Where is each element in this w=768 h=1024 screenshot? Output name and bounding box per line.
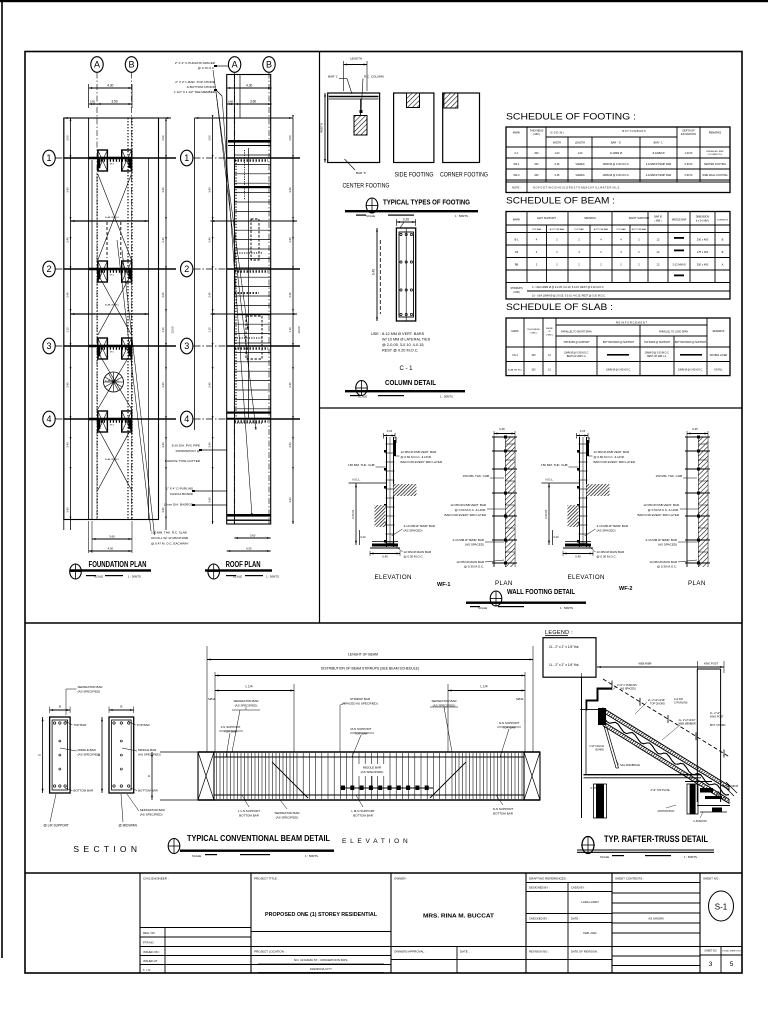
svg-text:3.60: 3.60 xyxy=(109,535,115,539)
svg-text:RB: RB xyxy=(515,263,519,267)
svg-text:ROOF PLAN: ROOF PLAN xyxy=(226,560,261,569)
svg-text:13.00: 13.00 xyxy=(171,326,175,333)
svg-text:BAWAYE TYPE GUTTER: BAWAYE TYPE GUTTER xyxy=(165,459,201,463)
svg-text:175 x 300: 175 x 300 xyxy=(697,250,709,254)
svg-text:3.40: 3.40 xyxy=(161,187,165,193)
svg-text:RIGHT SUPPORT: RIGHT SUPPORT xyxy=(629,217,650,220)
svg-text:EXCAVATION: EXCAVATION xyxy=(681,133,696,136)
svg-text:10MM Ø @ 0.40 M.O.C.: 10MM Ø @ 0.40 M.O.C. xyxy=(606,370,631,372)
svg-text:@ 0.30 M.O.C.: @ 0.30 M.O.C. xyxy=(657,565,677,569)
svg-text:MIDDLE BAR: MIDDLE BAR xyxy=(672,219,687,222)
svg-text:12 MM Ø MAIN BAR: 12 MM Ø MAIN BAR xyxy=(649,560,678,564)
svg-text:0.60 M: 0.60 M xyxy=(685,163,693,166)
svg-text:B: B xyxy=(266,60,272,70)
svg-text:WF-2: WF-2 xyxy=(619,586,632,592)
svg-text:BOTTOM BARS @ SUPPORT: BOTTOM BARS @ SUPPORT xyxy=(675,341,707,344)
svg-text:5: 5 xyxy=(730,961,734,968)
svg-text:WEB MEMBER: WEB MEMBER xyxy=(678,723,696,726)
svg-text:@ 0.60 M.O.C. & HOR.: @ 0.60 M.O.C. & HOR. xyxy=(401,455,432,459)
svg-text:ANCHOR BOLT: ANCHOR BOLT xyxy=(657,810,675,813)
svg-text:VARIES: VARIES xyxy=(576,174,585,177)
svg-text:T. I. N.: T. I. N. xyxy=(143,968,151,972)
svg-text:N-N SUPPORT: N-N SUPPORT xyxy=(493,807,514,811)
svg-text:3.50: 3.50 xyxy=(111,100,117,104)
svg-text:0.20: 0.20 xyxy=(403,218,409,222)
svg-text:NO. 19 DAMA ST., CONCEPCION DO: NO. 19 DAMA ST., CONCEPCION DOS, xyxy=(294,958,348,962)
svg-text:E L E V A T I O N: E L E V A T I O N xyxy=(342,838,409,845)
svg-text:0.20: 0.20 xyxy=(361,535,367,539)
svg-text:MARK: MARK xyxy=(513,218,521,222)
svg-text:10MM Ø @ 0.30 M.O.C.: 10MM Ø @ 0.30 M.O.C. xyxy=(603,163,630,166)
svg-text:2.00: 2.00 xyxy=(208,135,212,141)
svg-text:2.00: 2.00 xyxy=(161,135,165,141)
svg-text:CORNER FOOTING: CORNER FOOTING xyxy=(440,173,488,179)
svg-text:SLAB ON FILL: SLAB ON FILL xyxy=(105,304,120,307)
svg-text:1-N SUPPORT: 1-N SUPPORT xyxy=(220,725,240,729)
svg-text:100: 100 xyxy=(531,369,536,372)
svg-text:L 1-N SUPPORT: L 1-N SUPPORT xyxy=(238,809,261,813)
svg-text:W/ 10 MM Ø LATERAL TIES: W/ 10 MM Ø LATERAL TIES xyxy=(382,338,431,342)
svg-text:MIDDLE BAR: MIDDLE BAR xyxy=(363,766,382,770)
svg-text:DESIGNED BY :: DESIGNED BY : xyxy=(529,886,550,890)
svg-text:150 MM. THK. CHB: 150 MM. THK. CHB xyxy=(656,474,682,478)
svg-text:SF-1: SF-1 xyxy=(110,164,116,166)
svg-text:12 MM Ø MAIN BAR: 12 MM Ø MAIN BAR xyxy=(456,560,485,564)
svg-text:MARK: MARK xyxy=(513,131,521,135)
svg-text:BAR - 'L': BAR - 'L' xyxy=(654,142,664,145)
svg-text:A: A xyxy=(722,263,724,267)
svg-text:PTR NO: PTR NO xyxy=(143,941,154,945)
svg-text:b x D ( MM ): b x D ( MM ) xyxy=(696,220,709,223)
svg-text:0.45: 0.45 xyxy=(499,427,505,431)
svg-text:1.00: 1.00 xyxy=(578,152,583,155)
svg-text:TOP CHORD: TOP CHORD xyxy=(650,703,665,706)
svg-text:THICKNESS: THICKNESS xyxy=(527,329,540,331)
svg-text:USE :: USE : xyxy=(371,332,381,336)
svg-text:2.40: 2.40 xyxy=(161,292,165,298)
svg-text:S E C T I O N: S E C T I O N xyxy=(73,844,138,854)
svg-text:0.45: 0.45 xyxy=(555,174,560,177)
svg-text:( MM ): ( MM ) xyxy=(533,133,540,136)
svg-text:4 - USA 10MM Ø @ 2-0.05, 6-0.1: 4 - USA 10MM Ø @ 2-0.05, 6-0.10, 5-0.15,… xyxy=(532,286,605,289)
svg-text:BENT-UP 20Ø L.A.: BENT-UP 20Ø L.A. xyxy=(567,355,587,358)
svg-text:@ 0.30 M.O.C.: @ 0.30 M.O.C. xyxy=(464,565,484,569)
svg-text:2: 2 xyxy=(184,264,189,274)
svg-text:N.G.L.: N.G.L. xyxy=(353,478,361,482)
svg-text:ELEVATION: ELEVATION xyxy=(568,574,605,581)
svg-text:REVISION NO :: REVISION NO : xyxy=(529,950,549,954)
svg-text:3-10 MM Ø TEMP. BAR: 3-10 MM Ø TEMP. BAR xyxy=(597,524,629,528)
svg-text:SØ/2L: SØ/2L xyxy=(516,697,524,701)
svg-text:3-10 MM Ø TEMP. BAR: 3-10 MM Ø TEMP. BAR xyxy=(404,524,436,528)
svg-text:3.40: 3.40 xyxy=(288,497,292,503)
svg-text:LEFT SUPPORT: LEFT SUPPORT xyxy=(537,217,556,220)
svg-text:1: 1 xyxy=(184,153,189,163)
svg-text:3.60: 3.60 xyxy=(250,100,256,104)
svg-text:0.45: 0.45 xyxy=(382,555,388,559)
svg-text:1" X 4" C-PURLINS: 1" X 4" C-PURLINS xyxy=(166,487,193,491)
svg-text:150 MM. THK. CHB: 150 MM. THK. CHB xyxy=(463,474,489,478)
svg-text:(AS SPECIFIED): (AS SPECIFIED) xyxy=(140,813,163,817)
svg-text:MIDSPAN: MIDSPAN xyxy=(584,217,595,220)
svg-text:1.10: 1.10 xyxy=(288,327,292,333)
svg-text:PARALLEL TO SHORT SPAN: PARALLEL TO SHORT SPAN xyxy=(561,331,592,334)
svg-text:SF-1: SF-1 xyxy=(110,275,116,277)
svg-text:(AS SPECIFIED): (AS SPECIFIED) xyxy=(276,816,299,820)
svg-text:3.40: 3.40 xyxy=(208,187,212,193)
svg-text:3: 3 xyxy=(184,341,189,351)
svg-text:TOP BAR: TOP BAR xyxy=(574,228,584,231)
svg-text:2.00: 2.00 xyxy=(288,135,292,141)
svg-text:2.00: 2.00 xyxy=(66,135,70,141)
svg-text:TYPICAL TYPES OF FOOTING: TYPICAL TYPES OF FOOTING xyxy=(383,198,470,207)
svg-text:2-12 MM Ø: 2-12 MM Ø xyxy=(673,263,686,267)
svg-text:(AS SPACED): (AS SPACED) xyxy=(620,688,636,691)
svg-text:MARK: MARK xyxy=(511,330,519,333)
svg-text:C-PURLINS: C-PURLINS xyxy=(674,702,688,705)
svg-text:BOTTOM BAR: BOTTOM BAR xyxy=(493,812,514,816)
svg-text:SCHEDULE OF BEAM :: SCHEDULE OF BEAM : xyxy=(506,196,615,207)
svg-text:SCHEDULE OF SLAB :: SCHEDULE OF SLAB : xyxy=(506,302,613,313)
svg-text:10MM Ø @ 0.40 M.O.C.: 10MM Ø @ 0.40 M.O.C. xyxy=(678,370,703,372)
svg-text:1L - 2" x 2" x 1/4" thk.: 1L - 2" x 2" x 1/4" thk. xyxy=(549,663,579,667)
svg-text:TOP BAR: TOP BAR xyxy=(354,732,368,736)
svg-text:@ L/R SUPPORT: @ L/R SUPPORT xyxy=(44,824,69,828)
svg-text:200 x 400: 200 x 400 xyxy=(697,238,709,242)
svg-text:TOP BARS @ SUPPORT: TOP BARS @ SUPPORT xyxy=(644,341,671,344)
svg-text:BOT. CHORD: BOT. CHORD xyxy=(710,724,726,727)
svg-text:@ 0.70 O.C.: @ 0.70 O.C. xyxy=(198,66,215,70)
svg-text:300: 300 xyxy=(534,152,539,155)
svg-text:0.60 M: 0.60 M xyxy=(685,174,693,177)
svg-text:SEPARATOR BAR: SEPARATOR BAR xyxy=(140,808,166,812)
svg-text:2.40: 2.40 xyxy=(66,237,70,243)
svg-text:COLUMN DETAIL: COLUMN DETAIL xyxy=(385,378,436,387)
svg-text:BOTTOM BAR: BOTTOM BAR xyxy=(632,228,647,231)
svg-text:Ø: Ø xyxy=(549,331,551,333)
svg-text:3.60: 3.60 xyxy=(250,534,256,538)
svg-text:0.45: 0.45 xyxy=(575,555,581,559)
svg-text:10MM Ø @ 0.30 M.O.C.: 10MM Ø @ 0.30 M.O.C. xyxy=(564,353,589,355)
svg-text:BAR Ø: BAR Ø xyxy=(654,216,662,219)
svg-text:8-12 MM Ø VERT. BARS: 8-12 MM Ø VERT. BARS xyxy=(382,332,425,336)
svg-text:1.00: 1.00 xyxy=(555,152,560,155)
svg-text:2.40: 2.40 xyxy=(161,382,165,388)
svg-text:3.40: 3.40 xyxy=(208,497,212,503)
svg-text:TOTAL SHEET NO: TOTAL SHEET NO xyxy=(722,950,741,953)
svg-text:0.45: 0.45 xyxy=(555,163,560,166)
svg-text:2" X 2" L-BAR -TOP CHORD: 2" X 2" L-BAR -TOP CHORD xyxy=(175,80,215,84)
svg-text:4.30: 4.30 xyxy=(246,84,252,88)
svg-text:4: 4 xyxy=(46,414,51,424)
svg-text:13.00: 13.00 xyxy=(297,326,301,333)
svg-text:SEPARATOR BAR: SEPARATOR BAR xyxy=(431,699,457,703)
svg-text:BAR FOR EVERY 3RD LAYER: BAR FOR EVERY 3RD LAYER xyxy=(444,513,486,517)
svg-text:SØ/2L: SØ/2L xyxy=(208,697,216,701)
svg-text:DIMENSION: DIMENSION xyxy=(696,216,710,219)
svg-text:3: 3 xyxy=(709,961,713,968)
svg-text:BOARD: BOARD xyxy=(595,749,604,752)
svg-text:B: B xyxy=(722,238,724,242)
svg-text:BOTTOM BAR: BOTTOM BAR xyxy=(239,814,260,818)
svg-text:150 MM. THK. CHB: 150 MM. THK. CHB xyxy=(541,463,567,467)
svg-text:2" X 4" C PURLINS SPACED: 2" X 4" C PURLINS SPACED xyxy=(175,61,216,65)
svg-text:1.10: 1.10 xyxy=(161,327,165,333)
svg-text:TOP BAR: TOP BAR xyxy=(137,723,151,727)
svg-text:DOUBLE LAYER: DOUBLE LAYER xyxy=(710,354,728,357)
svg-text:1 : 50MTS.: 1 : 50MTS. xyxy=(305,854,319,858)
svg-text:TOP BAR: TOP BAR xyxy=(532,228,542,231)
svg-text:DISTRIBUTION OF BEAM STIRRUPS: DISTRIBUTION OF BEAM STIRRUPS (SEE BEAM … xyxy=(321,667,419,671)
svg-text:C - 1: C - 1 xyxy=(399,366,413,372)
svg-text:200: 200 xyxy=(534,174,539,177)
svg-text:(AS SPECIFIED): (AS SPECIFIED) xyxy=(138,753,161,757)
svg-text:1 : 50MTS.: 1 : 50MTS. xyxy=(266,575,280,579)
svg-text:ELEVATION: ELEVATION xyxy=(375,574,412,581)
svg-text:2.40: 2.40 xyxy=(66,382,70,388)
svg-text:B-1: B-1 xyxy=(514,238,519,242)
svg-text:FOUNDATION PLAN: FOUNDATION PLAN xyxy=(89,560,147,569)
svg-text:12 MM Ø MAIN BAR: 12 MM Ø MAIN BAR xyxy=(404,550,433,554)
svg-text:BAR FOR EVERY 3RD LAYER: BAR FOR EVERY 3RD LAYER xyxy=(637,513,679,517)
svg-text:B: B xyxy=(128,60,134,70)
svg-text:SLAB ON FILL: SLAB ON FILL xyxy=(105,458,120,461)
svg-text:B: B xyxy=(120,705,122,709)
svg-text:PLAN: PLAN xyxy=(688,580,706,587)
svg-text:LARA LANZO: LARA LANZO xyxy=(581,900,599,904)
svg-text:3.40: 3.40 xyxy=(66,187,70,193)
svg-text:(AS SPACED): (AS SPACED) xyxy=(465,543,484,547)
svg-text:200: 200 xyxy=(534,163,539,166)
svg-text:10 - USA 10MM Ø @ 2-0.05, 3-0.: 10 - USA 10MM Ø @ 2-0.05, 3-0.10, 4-0.15… xyxy=(532,295,606,298)
svg-text:4.30: 4.30 xyxy=(246,547,252,551)
svg-text:M-N SUPPORT: M-N SUPPORT xyxy=(351,727,372,731)
svg-text:( MM ): ( MM ) xyxy=(546,334,553,336)
svg-text:ISSUED AT: ISSUED AT xyxy=(143,959,158,963)
svg-text:2L - 2" x 2" x 1/4" thk.: 2L - 2" x 2" x 1/4" thk. xyxy=(549,645,579,649)
svg-text:@ 2-0.05, 3-0.10, 4-0.15,: @ 2-0.05, 3-0.10, 4-0.15, xyxy=(382,343,424,347)
svg-text:100 MM. THK. R.C. SLAB: 100 MM. THK. R.C. SLAB xyxy=(151,531,187,535)
svg-text:BOTTOM BAR: BOTTOM BAR xyxy=(594,228,609,231)
svg-text:WIDTH: WIDTH xyxy=(553,142,561,145)
svg-text:1 : 50MTS.: 1 : 50MTS. xyxy=(128,575,142,579)
svg-text:STIRRUPS: STIRRUPS xyxy=(717,220,729,222)
svg-text:CENTER FOOTING: CENTER FOOTING xyxy=(704,163,726,166)
svg-text:( 10Ø ): ( 10Ø ) xyxy=(513,291,521,294)
svg-text:MRS. RINA M. BUCCAT: MRS. RINA M. BUCCAT xyxy=(423,914,495,920)
svg-text:FASCIA BOARD: FASCIA BOARD xyxy=(170,492,193,496)
svg-text:3.40: 3.40 xyxy=(66,507,70,513)
svg-text:SHEET CONTENTS :: SHEET CONTENTS : xyxy=(615,877,644,881)
svg-text:WIDTH: WIDTH xyxy=(320,123,324,133)
svg-text:@ 0.60 M.O.C. & HOR.: @ 0.60 M.O.C. & HOR. xyxy=(455,508,486,512)
svg-text:L 1/4: L 1/4 xyxy=(481,685,488,689)
svg-text:0.60 M.: 0.60 M. xyxy=(544,509,548,519)
svg-text:ON FILL W/ 12 MM Ø RSB: ON FILL W/ 12 MM Ø RSB xyxy=(151,536,188,540)
svg-text:SCALE: SCALE xyxy=(192,854,201,858)
svg-text:CIVIL ENGINEER :: CIVIL ENGINEER : xyxy=(143,877,169,881)
svg-text:L 1/4: L 1/4 xyxy=(246,685,253,689)
svg-text:10MM Ø @ 0.30 M.O.C.: 10MM Ø @ 0.30 M.O.C. xyxy=(645,353,670,355)
svg-text:8-12MM Ø: 8-12MM Ø xyxy=(610,152,622,155)
svg-text:0.60: 0.60 xyxy=(90,100,96,104)
svg-text:2.40: 2.40 xyxy=(288,237,292,243)
svg-text:2-12MM Ø TEMP. BAR: 2-12MM Ø TEMP. BAR xyxy=(646,163,672,166)
svg-text:CHECKED BY :: CHECKED BY : xyxy=(529,917,549,921)
svg-text:SAG ROD/BRACE: SAG ROD/BRACE xyxy=(620,764,640,767)
svg-text:REMARKS: REMARKS xyxy=(709,132,722,135)
svg-text:200 x 400: 200 x 400 xyxy=(697,263,709,267)
svg-text:F-1: F-1 xyxy=(515,152,519,155)
svg-text:4.30: 4.30 xyxy=(108,547,114,551)
svg-text:1 : 50MTS.: 1 : 50MTS. xyxy=(684,855,698,859)
svg-text:DATE :: DATE : xyxy=(460,950,470,954)
svg-text:@ 0.47 M. O.C. EACHWAY: @ 0.47 M. O.C. EACHWAY xyxy=(151,542,189,546)
svg-text:BENT-UP 20Ø L.A.: BENT-UP 20Ø L.A. xyxy=(647,355,667,358)
svg-text:R.C. COLUMN: R.C. COLUMN xyxy=(364,75,384,79)
svg-text:1 1/2" X 1 1/2" TEE MEMBER: 1 1/2" X 1 1/2" TEE MEMBER xyxy=(174,90,216,94)
svg-text:PARALLEL TO LONG SPAN: PARALLEL TO LONG SPAN xyxy=(659,331,688,334)
svg-text:8-12MM Ø: 8-12MM Ø xyxy=(653,152,665,155)
svg-text:DOWNSPOUT @: DOWNSPOUT @ xyxy=(176,449,200,453)
svg-text:12mm DIA. BASROD: 12mm DIA. BASROD xyxy=(164,503,194,507)
svg-text:S-1: S-1 xyxy=(715,903,728,912)
svg-text:4.30: 4.30 xyxy=(107,84,113,88)
svg-text:VARIES: VARIES xyxy=(576,163,585,166)
svg-text:DRAFTING REFERENCES :: DRAFTING REFERENCES : xyxy=(529,877,568,881)
svg-text:12 MM Ø RSB VERT. BAR: 12 MM Ø RSB VERT. BAR xyxy=(450,503,486,507)
svg-text:TOP BAR: TOP BAR xyxy=(73,723,87,727)
svg-text:1 : 50MTS.: 1 : 50MTS. xyxy=(560,606,574,610)
svg-text:MIDDLE BAR: MIDDLE BAR xyxy=(78,748,97,752)
svg-text:1: 1 xyxy=(46,153,51,163)
svg-text:OWNERS APPROVAL :: OWNERS APPROVAL : xyxy=(394,950,426,954)
svg-text:2.40: 2.40 xyxy=(208,237,212,243)
svg-text:TOP BARS @ SUPPORT: TOP BARS @ SUPPORT xyxy=(563,341,590,344)
svg-text:8-10 DIA. PVC PIPE: 8-10 DIA. PVC PIPE xyxy=(172,444,200,448)
svg-text:0.60: 0.60 xyxy=(228,100,234,104)
svg-text:12 MM Ø RSB VERT. BAR: 12 MM Ø RSB VERT. BAR xyxy=(594,450,630,454)
svg-text:2.40: 2.40 xyxy=(288,292,292,298)
svg-text:1.10: 1.10 xyxy=(66,327,70,333)
svg-text:LENGTH: LENGTH xyxy=(350,57,362,61)
svg-text:@ MIDSPAN: @ MIDSPAN xyxy=(119,824,138,828)
svg-text:& BOTTOM CHORD: & BOTTOM CHORD xyxy=(187,85,216,89)
svg-text:STIRRUPS: STIRRUPS xyxy=(510,287,522,290)
svg-text:A: A xyxy=(94,60,100,70)
svg-text:SEPARATOR BAR: SEPARATOR BAR xyxy=(274,811,300,815)
svg-text:3.40: 3.40 xyxy=(161,507,165,513)
svg-text:LB: LB xyxy=(515,250,518,254)
svg-text:BAR - 'S': BAR - 'S' xyxy=(611,142,622,145)
svg-text:TYP. RAFTER-TRUSS DETAIL: TYP. RAFTER-TRUSS DETAIL xyxy=(604,834,708,844)
svg-text:1.10: 1.10 xyxy=(208,327,212,333)
svg-text:2.40: 2.40 xyxy=(161,237,165,243)
svg-text:0.45: 0.45 xyxy=(692,427,698,431)
svg-text:DATE OF REVISION :: DATE OF REVISION : xyxy=(571,950,599,954)
svg-text:COLUMN FTG.: COLUMN FTG. xyxy=(707,154,722,156)
svg-text:BOTTOM BAR: BOTTOM BAR xyxy=(550,228,565,231)
svg-text:TOP BAR: TOP BAR xyxy=(616,228,626,231)
svg-text:DATE :: DATE : xyxy=(571,917,580,921)
svg-text:CENTER FOOTING: CENTER FOOTING xyxy=(343,184,390,190)
svg-text:SHEET NO: SHEET NO xyxy=(704,950,716,953)
svg-text:(AS SPECIFIED): (AS SPECIFIED) xyxy=(361,770,384,774)
svg-text:PROPOSED ONE (1) STOREY RESIDE: PROPOSED ONE (1) STOREY RESIDENTIAL xyxy=(265,912,378,918)
svg-text:( MM ): ( MM ) xyxy=(530,333,537,335)
svg-text:REG. NO: REG. NO xyxy=(143,931,156,935)
svg-text:2: 2 xyxy=(46,264,51,274)
svg-text:12 MM Ø RSB VERT. BAR: 12 MM Ø RSB VERT. BAR xyxy=(401,450,437,454)
svg-text:B: B xyxy=(722,250,724,254)
svg-text:ON FILL: ON FILL xyxy=(714,370,723,372)
svg-text:ISSUED ON :: ISSUED ON : xyxy=(143,950,160,954)
svg-text:3.40: 3.40 xyxy=(288,187,292,193)
svg-text:SLAB ON FILL: SLAB ON FILL xyxy=(105,216,120,219)
svg-text:2"x6" TOP PLATE: 2"x6" TOP PLATE xyxy=(650,789,669,792)
svg-text:SCHEDULE OF FOOTING :: SCHEDULE OF FOOTING : xyxy=(506,112,636,123)
svg-text:1.00 M: 1.00 M xyxy=(685,152,693,155)
svg-text:SCALE: SCALE xyxy=(600,855,609,859)
svg-text:N-N SUPPORT: N-N SUPPORT xyxy=(499,721,520,725)
svg-text:SF-1: SF-1 xyxy=(110,425,116,427)
svg-text:(AS SPACED): (AS SPACED) xyxy=(404,529,423,533)
svg-text:2.40: 2.40 xyxy=(66,292,70,298)
svg-text:AS SHOWN: AS SHOWN xyxy=(648,917,663,921)
svg-text:WEB M/BR: WEB M/BR xyxy=(638,662,651,666)
svg-text:FEB. 2022: FEB. 2022 xyxy=(583,931,597,935)
svg-text:150 MM. THK. CHB: 150 MM. THK. CHB xyxy=(348,463,374,467)
svg-text:BOTTOM BAR: BOTTOM BAR xyxy=(73,789,94,793)
svg-text:4" CHB: 4" CHB xyxy=(590,787,598,790)
svg-text:WF-1: WF-1 xyxy=(513,163,520,166)
svg-text:PLAN: PLAN xyxy=(495,580,513,587)
svg-text:WF-2: WF-2 xyxy=(513,174,520,177)
svg-text:3-10 MM Ø TEMP. BAR: 3-10 MM Ø TEMP. BAR xyxy=(452,538,484,542)
svg-text:N.G.L.: N.G.L. xyxy=(546,478,554,482)
svg-text:@ 0.30 M.O.C.: @ 0.30 M.O.C. xyxy=(597,555,617,559)
svg-text:(AS SPECIFIED): (AS SPECIFIED) xyxy=(235,704,258,708)
svg-text:3.40: 3.40 xyxy=(66,442,70,448)
svg-text:UNDER ALL RMP: UNDER ALL RMP xyxy=(706,150,724,153)
svg-text:0.20: 0.20 xyxy=(554,535,560,539)
svg-text:CS-1: CS-1 xyxy=(512,354,518,357)
svg-text:@ 0.60 M.O.C. & HOR.: @ 0.60 M.O.C. & HOR. xyxy=(648,508,679,512)
svg-text:A: A xyxy=(232,60,238,70)
svg-text:BOTTOM BARS @ SUPPORT: BOTTOM BARS @ SUPPORT xyxy=(603,341,635,344)
svg-text:LENGTH: LENGTH xyxy=(575,142,585,145)
svg-text:(AS SPACED): (AS SPACED) xyxy=(658,543,677,547)
svg-text:WF-1: WF-1 xyxy=(437,582,450,588)
svg-text:2.40: 2.40 xyxy=(288,382,292,388)
svg-text:L M-N SUPPORT: L M-N SUPPORT xyxy=(351,809,375,813)
svg-text:0.15: 0.15 xyxy=(580,429,586,433)
svg-text:(SPACED AS SPECIFIED): (SPACED AS SPECIFIED) xyxy=(342,702,377,706)
svg-text:TOP BAR: TOP BAR xyxy=(502,726,516,730)
svg-text:1 : 50MTS.: 1 : 50MTS. xyxy=(440,395,454,399)
svg-text:STIRRUP BAR: STIRRUP BAR xyxy=(350,697,371,701)
svg-text:3.40: 3.40 xyxy=(161,442,165,448)
svg-text:0.60 M.: 0.60 M. xyxy=(351,509,355,519)
svg-text:3: 3 xyxy=(46,341,51,351)
svg-text:LENGHT OF BEAM: LENGHT OF BEAM xyxy=(348,653,378,657)
svg-text:2.40: 2.40 xyxy=(208,292,212,298)
svg-text:MIDDLE BAR: MIDDLE BAR xyxy=(138,748,157,752)
svg-text:5-16 MM Ø: 5-16 MM Ø xyxy=(726,785,738,788)
svg-text:BAR 'S': BAR 'S' xyxy=(356,171,367,175)
svg-text:SF-1: SF-1 xyxy=(110,352,116,354)
svg-text:TOP BAR: TOP BAR xyxy=(224,730,238,734)
